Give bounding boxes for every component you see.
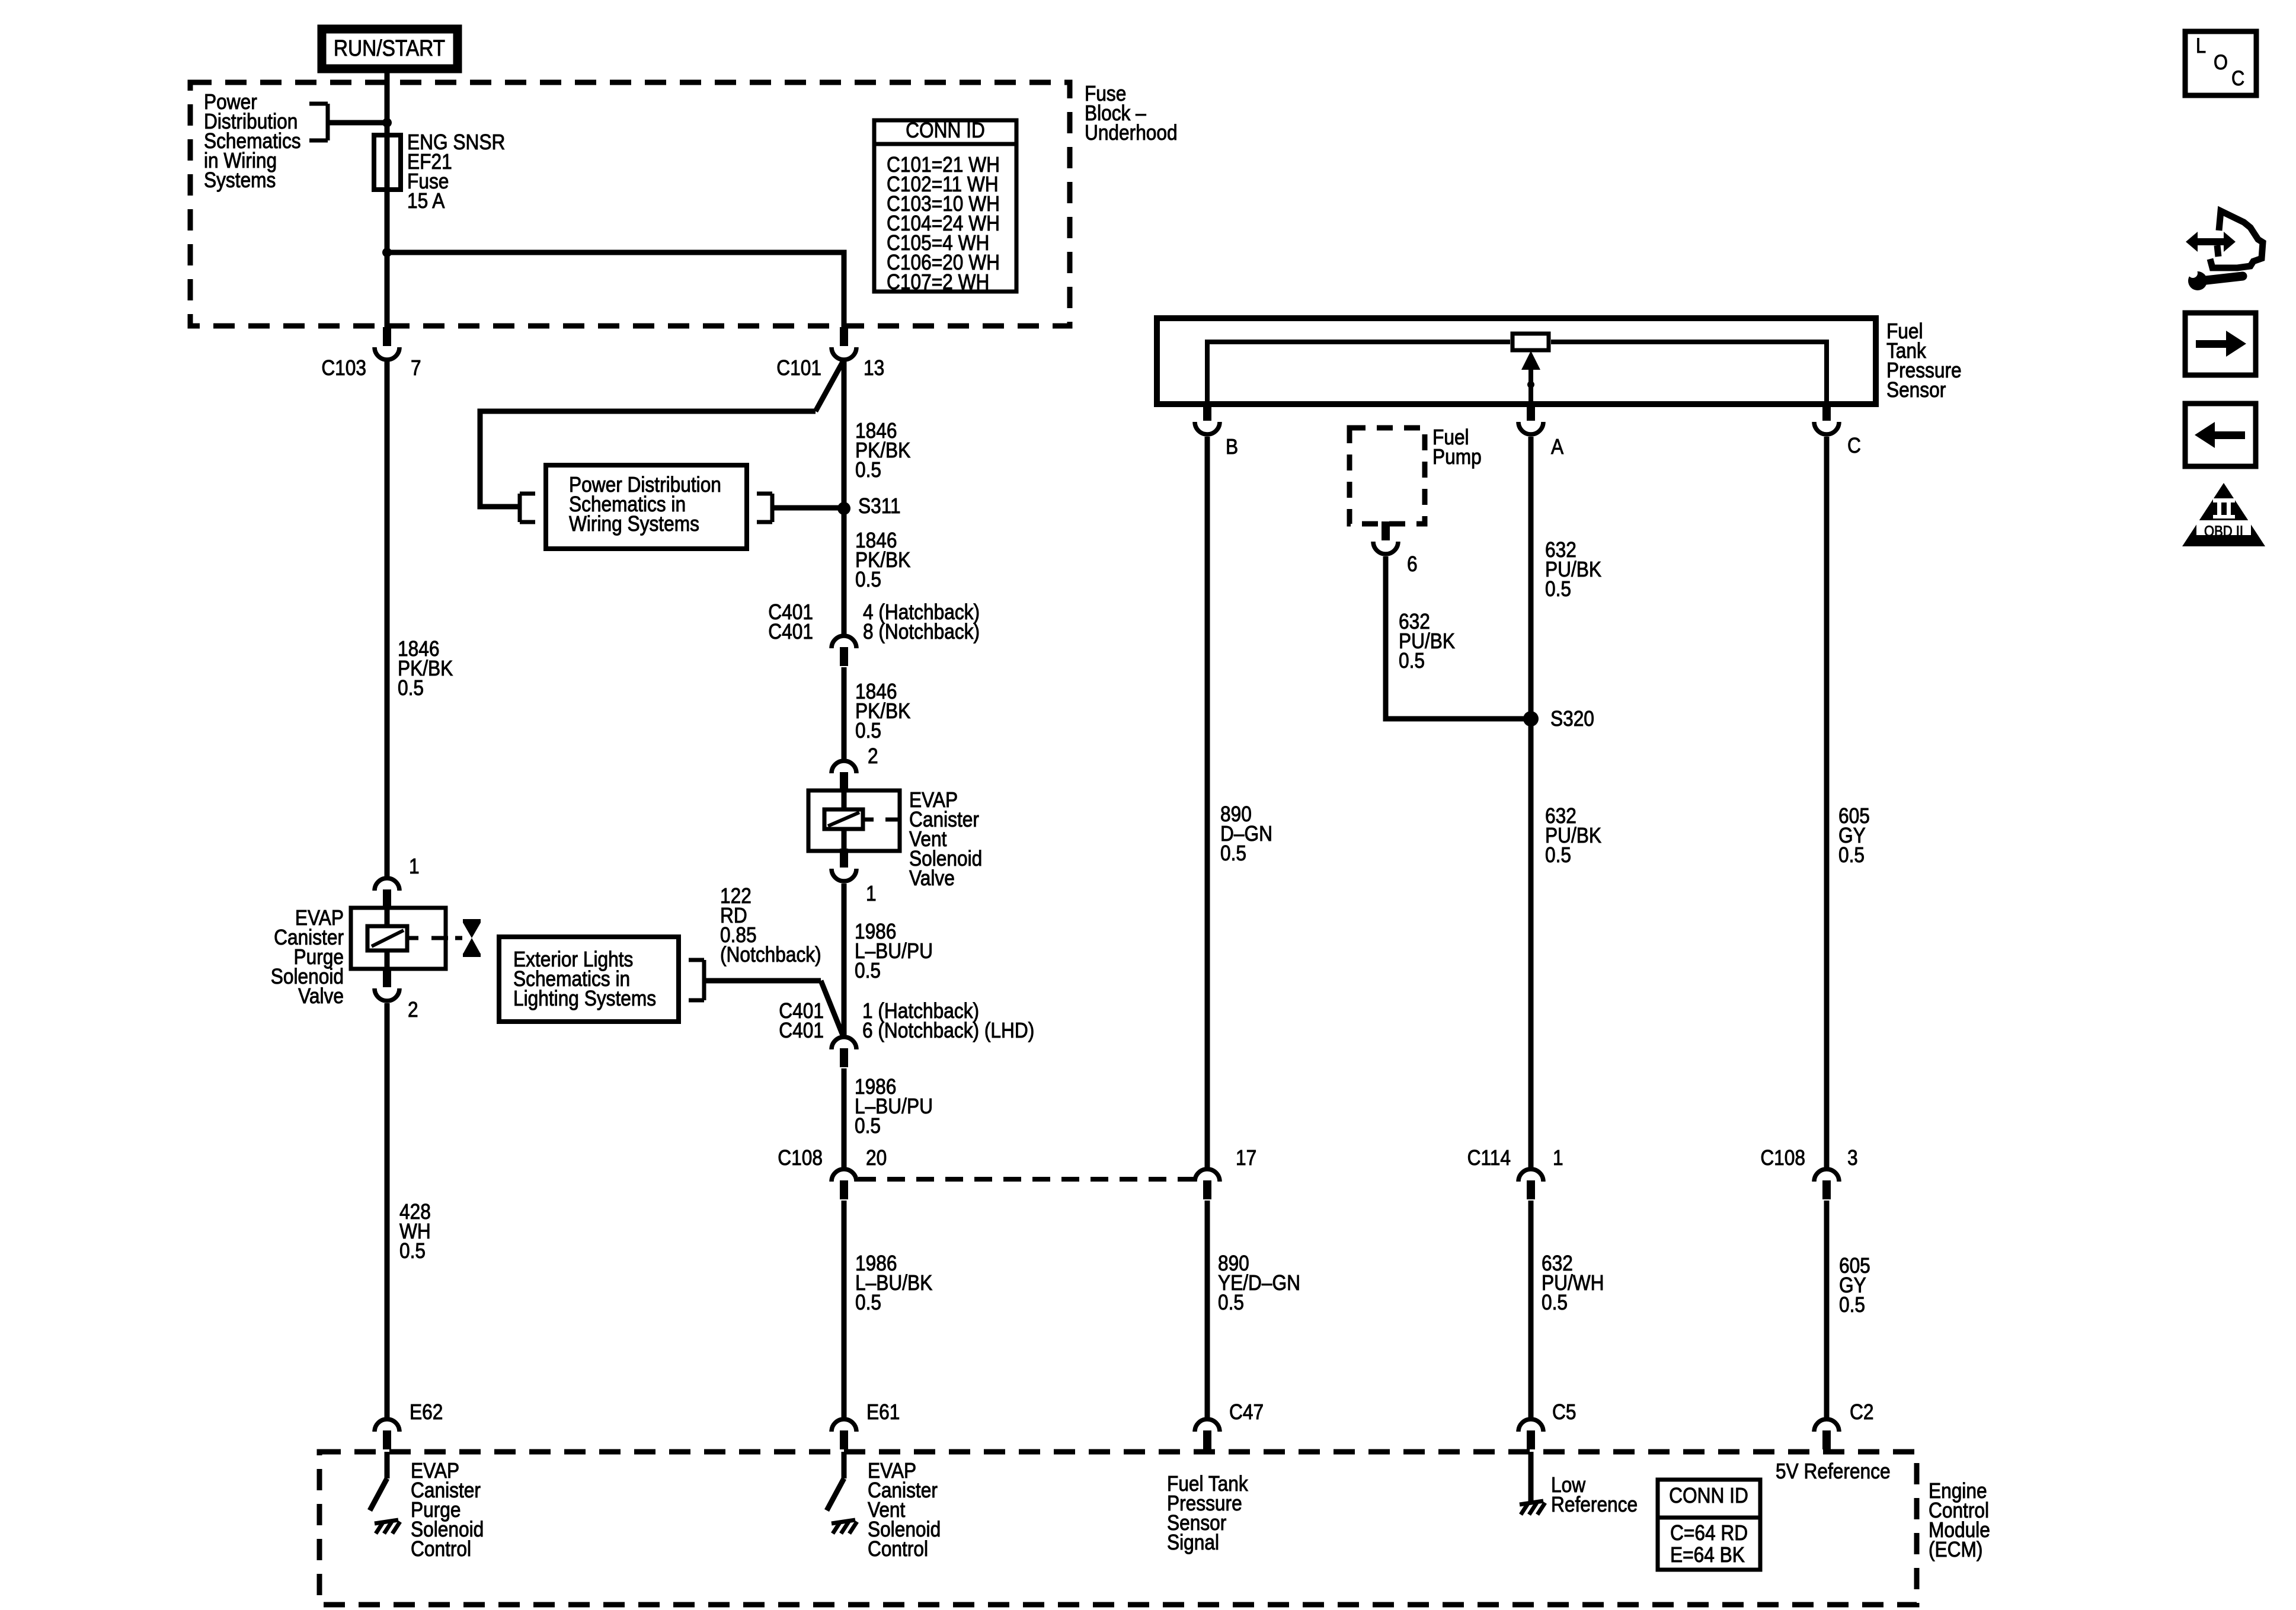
svg-text:0.5: 0.5: [855, 1291, 881, 1314]
potentiometer wire inside sensor: [1207, 342, 1510, 404]
svg-text:0.5: 0.5: [1545, 577, 1571, 601]
svg-text:0.5: 0.5: [855, 568, 881, 591]
wire C101 to C401 (1846 PK/BK): [842, 361, 847, 634]
svg-text:0.5: 0.5: [1399, 649, 1425, 673]
svg-text:(ECM): (ECM): [1929, 1538, 1982, 1561]
EVAP canister purge solenoid valve box: [351, 908, 446, 969]
svg-text:Valve: Valve: [298, 984, 344, 1008]
svg-text:C103: C103: [321, 356, 366, 380]
svg-text:0.5: 0.5: [398, 676, 424, 700]
svg-text:C108: C108: [778, 1146, 823, 1170]
wire C401 to EVAP vent solenoid pin 2: [842, 667, 847, 759]
junction dot above fuse: [382, 118, 392, 127]
connector C5: [1518, 1419, 1543, 1432]
dashed wire C108-20 to 17: [858, 1177, 1194, 1182]
engine control module dashed box: [319, 1452, 1917, 1605]
svg-text:Control: Control: [411, 1537, 471, 1561]
wire RUN/START feed down through fuse to C103: [385, 69, 390, 328]
svg-text:0.5: 0.5: [1545, 843, 1571, 867]
reference box Power Distribution Schematics in Wiring Systems: [546, 465, 747, 549]
svg-text:C108: C108: [1760, 1146, 1805, 1170]
wire from bracket to S311: [772, 505, 844, 511]
svg-text:A: A: [1551, 435, 1563, 459]
svg-text:Pump: Pump: [1432, 445, 1482, 469]
connector C101 pin 13: [840, 327, 848, 346]
svg-text:15 A: 15 A: [407, 189, 445, 213]
wire 632 PU/BK fuel pump to S320: [1386, 556, 1531, 719]
svg-text:C401: C401: [768, 620, 813, 644]
wire vent solenoid to C401 lower (1986 L-BU/PU): [842, 884, 847, 1035]
solenoid coil symbol (vent): [824, 809, 863, 829]
inline connector C401 upper: [832, 636, 856, 648]
connector C114 pin 1: [1518, 1169, 1543, 1182]
svg-text:0.5: 0.5: [855, 959, 881, 982]
svg-text:Signal: Signal: [1167, 1531, 1219, 1554]
connector pin B of sensor: [1203, 402, 1211, 421]
wire branch to power distribution reference bracket: [328, 120, 387, 126]
svg-text:1: 1: [866, 882, 877, 905]
inline connector C401 lower: [832, 1037, 856, 1049]
svg-text:Systems: Systems: [204, 168, 276, 192]
connector at vent solenoid pin 2: [832, 761, 856, 773]
svg-text:20: 20: [866, 1146, 887, 1170]
dashed actuator link (vent): [864, 818, 874, 822]
svg-text:3: 3: [1847, 1146, 1858, 1170]
potentiometer wiper arrow: [1521, 351, 1540, 370]
wire diagonal into C401 lower: [821, 981, 843, 1035]
svg-text:E=64 BK: E=64 BK: [1670, 1543, 1745, 1567]
fuel tank pressure sensor box: [1157, 318, 1876, 404]
ECM driver switch (vent control): [842, 1452, 847, 1478]
bracket left of Power Distribution box: [518, 494, 522, 522]
CONN ID table of fuse block: [874, 120, 1016, 292]
svg-text:6: 6: [1407, 552, 1418, 576]
svg-text:OBD II: OBD II: [2204, 523, 2243, 540]
wire 890 D-GN sensor B to 17: [1205, 437, 1210, 1167]
dashed actuator link (purge): [409, 936, 418, 940]
wire diagonal from C101 to loop: [816, 360, 844, 411]
svg-text:5V Reference: 5V Reference: [1776, 1459, 1891, 1483]
bracket for Power Distribution Schematics reference: [326, 104, 330, 140]
svg-text:CONN ID: CONN ID: [1669, 1484, 1748, 1507]
svg-text:C5: C5: [1552, 1400, 1576, 1424]
junction dot at branch to C101: [382, 248, 392, 257]
wire 632 PU/BK sensor A to C114: [1528, 437, 1534, 1167]
svg-text:6 (Notchback) (LHD): 6 (Notchback) (LHD): [862, 1019, 1034, 1042]
wire 1986 L-BU/BK to ECM E61: [842, 1201, 847, 1417]
wire C401 lower to C108: [842, 1068, 847, 1167]
connector pin 17: [1195, 1169, 1220, 1182]
svg-text:C: C: [2231, 66, 2244, 89]
wire 605 GY sensor C to C108: [1824, 437, 1830, 1167]
icon arrow left box: [2185, 404, 2256, 466]
connector C108 pin 3: [1814, 1169, 1839, 1182]
wire 890 YE/D-GN to ECM C47: [1205, 1201, 1210, 1417]
svg-text:S311: S311: [858, 494, 901, 518]
svg-text:CONN ID: CONN ID: [906, 119, 985, 142]
svg-text:B: B: [1226, 435, 1238, 459]
connector pin C of sensor: [1822, 402, 1831, 421]
ground (purge driver): [375, 1520, 398, 1523]
svg-text:RUN/START: RUN/START: [334, 36, 445, 60]
splice S320: [1523, 711, 1539, 726]
svg-text:1: 1: [1553, 1146, 1563, 1170]
svg-text:C=64 RD: C=64 RD: [1670, 1521, 1748, 1545]
splice S311: [837, 502, 850, 515]
connector E61: [832, 1419, 856, 1432]
svg-text:(Notchback): (Notchback): [720, 943, 821, 966]
svg-text:E61: E61: [866, 1400, 900, 1424]
icon vehicle with wrench: [2186, 232, 2236, 252]
connector C47: [1195, 1419, 1220, 1432]
connector C103 pin 7: [383, 327, 391, 346]
connector E62: [375, 1419, 399, 1432]
wire from exterior lights bracket: [704, 978, 821, 984]
wire 428 WH to ECM E62: [385, 1003, 390, 1417]
ground (vent driver): [832, 1520, 855, 1523]
svg-text:Sensor: Sensor: [1886, 378, 1946, 402]
wire 605 GY to ECM C2: [1824, 1201, 1830, 1417]
CONN ID table of ECM: [1658, 1480, 1760, 1570]
svg-text:C101: C101: [776, 356, 821, 380]
svg-text:2: 2: [408, 998, 418, 1022]
svg-text:Valve: Valve: [909, 866, 955, 890]
svg-text:C401: C401: [779, 1019, 824, 1042]
svg-text:Control: Control: [868, 1537, 928, 1561]
svg-text:0.5: 0.5: [399, 1239, 426, 1263]
fuel pump dashed box: [1350, 428, 1425, 524]
svg-text:17: 17: [1236, 1146, 1256, 1170]
icon LOC box: [2185, 31, 2256, 95]
svg-text:L: L: [2196, 34, 2206, 57]
dot on wiper: [1527, 381, 1534, 388]
svg-text:C47: C47: [1229, 1400, 1264, 1424]
EVAP canister vent solenoid valve box: [808, 790, 900, 851]
svg-text:Wiring Systems: Wiring Systems: [569, 512, 699, 536]
bracket right of Exterior Lights box: [702, 960, 706, 1000]
ECM driver switch (purge control): [385, 1452, 390, 1478]
svg-text:0.5: 0.5: [1218, 1291, 1244, 1314]
svg-text:E62: E62: [410, 1400, 443, 1424]
bracket right of Power Distribution box: [770, 494, 775, 522]
svg-text:Lighting Systems: Lighting Systems: [513, 987, 656, 1010]
connector at purge solenoid pin 1: [375, 878, 399, 891]
svg-text:O: O: [2214, 50, 2228, 73]
svg-text:13: 13: [864, 356, 884, 380]
svg-text:0.5: 0.5: [1838, 843, 1865, 867]
icon arrow right box: [2185, 313, 2256, 375]
wire to low reference ground: [1528, 1452, 1534, 1502]
connector C108 pin 20: [832, 1169, 856, 1182]
wire branch to connector C101: [387, 252, 844, 328]
connector at vent solenoid pin 1: [840, 849, 848, 868]
ground (low reference): [1520, 1501, 1543, 1505]
power feed box RUN/START: [322, 29, 458, 69]
svg-text:0.5: 0.5: [1220, 841, 1246, 865]
connector C2: [1814, 1419, 1839, 1432]
icon OBD II triangle: [2182, 483, 2265, 546]
svg-text:0.5: 0.5: [855, 458, 881, 482]
svg-text:Reference: Reference: [1551, 1493, 1638, 1516]
fuse ENG SNSR EF21 15 A: [374, 135, 401, 190]
svg-text:1: 1: [409, 854, 420, 878]
svg-text:S320: S320: [1550, 707, 1594, 731]
svg-text:0.5: 0.5: [855, 719, 881, 742]
connector fuel pump pin 6: [1382, 521, 1390, 540]
svg-text:C: C: [1847, 434, 1861, 457]
fuse block underhood dashed box: [190, 82, 1070, 326]
svg-text:C114: C114: [1467, 1146, 1511, 1170]
solenoid coil symbol (purge): [367, 926, 407, 950]
wire C103 to EVAP purge solenoid (1846 PK/BK): [385, 360, 390, 876]
svg-text:C2: C2: [1850, 1400, 1873, 1424]
wire 632 PU/WH to ECM C5: [1528, 1201, 1534, 1417]
svg-text:7: 7: [411, 356, 421, 380]
svg-text:0.5: 0.5: [1542, 1291, 1568, 1314]
svg-text:Underhood: Underhood: [1085, 121, 1178, 145]
svg-text:2: 2: [868, 744, 878, 768]
connector at purge solenoid pin 2: [383, 968, 391, 987]
svg-text:C107=2 WH: C107=2 WH: [887, 270, 989, 294]
svg-text:0.5: 0.5: [855, 1114, 881, 1138]
wire loop to power distribution reference: [480, 411, 816, 507]
valve symbol (bowtie): [463, 919, 481, 923]
reference box Exterior Lights Schematics in Lighting Systems: [499, 937, 679, 1022]
potentiometer resistor element: [1512, 334, 1549, 350]
svg-text:8 (Notchback): 8 (Notchback): [863, 620, 980, 644]
svg-text:0.5: 0.5: [1839, 1293, 1865, 1317]
connector pin A of sensor: [1527, 402, 1535, 421]
